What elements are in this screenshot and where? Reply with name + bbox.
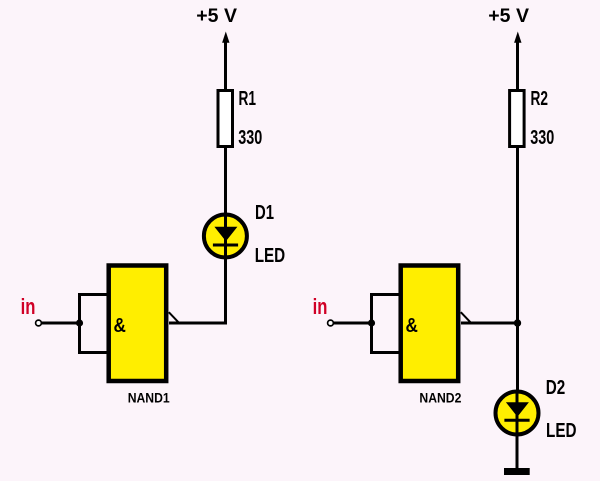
svg-text:R2: R2 [531,88,549,110]
wire to NAND1 input A [78,293,108,296]
junction dot (NAND2 output) [514,319,521,326]
LED D1 [204,214,247,258]
svg-text:+5 V: +5 V [488,5,529,27]
power arrow symbol (right) [514,32,521,43]
wire input split vertical (right) [370,295,373,353]
wire arrow to R1 [224,42,227,90]
wire NAND2 output to junction [461,322,518,325]
svg-text:in: in [313,294,328,319]
resistor R2 [510,91,524,147]
svg-text:&: & [114,314,127,337]
wire input split vertical (left) [78,295,81,353]
svg-text:R1: R1 [239,88,257,110]
svg-text:330: 330 [530,127,554,149]
svg-text:D2: D2 [546,377,566,399]
LED D2 [496,391,539,435]
NAND1 gate body [109,266,167,382]
wire R1 to D1 [224,146,227,214]
junction dot (left input) [76,319,83,326]
svg-text:&: & [406,314,419,337]
svg-text:in: in [21,294,36,319]
svg-text:NAND1: NAND1 [128,390,170,406]
power arrow symbol (left) [222,32,229,43]
ground [504,468,530,475]
wire arrow to R2 [516,42,519,90]
svg-text:NAND2: NAND2 [419,390,461,406]
output inverter wedge (NAND2) [461,312,471,322]
wire in to junction (left) [42,322,80,325]
wire to NAND1 input B [78,351,108,354]
svg-text:LED: LED [255,245,286,267]
wire to NAND2 input B [370,351,400,354]
svg-text:LED: LED [546,420,577,442]
junction dot (right input) [368,319,375,326]
wire R2 to D2 through junction [516,146,519,391]
input terminal circle (right) [328,320,334,326]
resistor R1 [218,91,233,147]
wire D1 to NAND1 output [169,258,226,323]
svg-text:+5 V: +5 V [196,5,237,27]
svg-text:330: 330 [238,127,262,149]
output inverter wedge (NAND1) [169,312,179,322]
input terminal circle (left) [36,320,42,326]
wire D2 to ground [516,435,519,469]
NAND2 gate body [401,266,459,382]
svg-text:D1: D1 [255,202,274,224]
wire to NAND2 input A [370,293,400,296]
wire in to junction (right) [334,322,372,325]
